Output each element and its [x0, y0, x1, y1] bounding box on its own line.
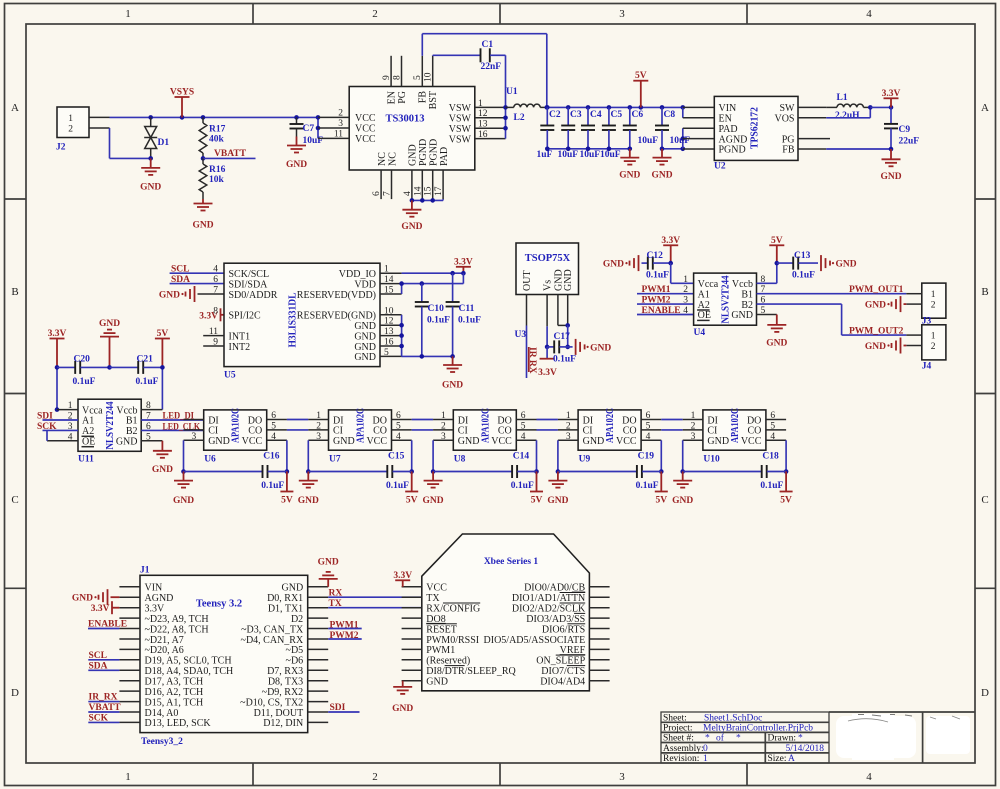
- svg-text:C15: C15: [388, 452, 405, 462]
- svg-text:C13: C13: [794, 251, 811, 261]
- power port VSYS: [181, 97, 183, 117]
- capacitor C5 10uF: [608, 107, 610, 125]
- svg-text:GND: GND: [583, 436, 605, 447]
- svg-text:GND: GND: [766, 338, 787, 348]
- wire U5 VDD_IO to 3.3V: [402, 272, 464, 274]
- ground symbol U9: [557, 472, 559, 481]
- wire U9 VCC drop: [660, 440, 662, 471]
- ground symbol at J4 pin2: [900, 338, 902, 354]
- svg-text:DO: DO: [497, 415, 511, 426]
- U8 left pins: [433, 419, 453, 421]
- svg-text:12: 12: [478, 109, 488, 119]
- svg-text:SD0/ADDR: SD0/ADDR: [229, 290, 278, 301]
- svg-text:1: 1: [125, 8, 131, 20]
- svg-text:C16: C16: [263, 452, 280, 462]
- svg-text:CI: CI: [208, 426, 218, 437]
- svg-text:GND: GND: [672, 496, 693, 506]
- svg-text:C18: C18: [762, 452, 779, 462]
- wire cap bank bottom rail: [547, 148, 630, 150]
- svg-text:C4: C4: [590, 110, 602, 120]
- svg-text:GND: GND: [354, 321, 376, 332]
- svg-text:VBATT: VBATT: [214, 149, 247, 159]
- capacitor C19 0.1uF: [558, 471, 637, 473]
- svg-text:NC: NC: [377, 152, 388, 166]
- svg-text:~D9, RX2: ~D9, RX2: [262, 687, 304, 698]
- svg-text:~D20, A6: ~D20, A6: [145, 645, 184, 656]
- U11 left pins: [57, 409, 78, 411]
- svg-text:GND: GND: [152, 465, 173, 475]
- ground symbol below R16: [202, 199, 204, 204]
- svg-text:VSW: VSW: [449, 134, 472, 145]
- svg-text:GND: GND: [282, 583, 304, 594]
- IC Xbee Series 1 body: [422, 534, 590, 691]
- svg-text:U8: U8: [454, 455, 466, 465]
- svg-text:0.1uF: 0.1uF: [261, 481, 284, 491]
- power port 3.3V below U3: [540, 358, 555, 360]
- svg-text:C11: C11: [459, 304, 475, 314]
- power port 3.3V output: [890, 98, 892, 107]
- svg-text:GND: GND: [836, 260, 857, 270]
- capacitor C1 22nF: [480, 48, 482, 62]
- IC U5 H3LIS331DL body: [224, 263, 380, 366]
- svg-text:CI: CI: [707, 426, 717, 437]
- svg-text:SCK/SCL: SCK/SCL: [229, 269, 270, 280]
- wire PAD AGND PGND tie: [682, 128, 684, 149]
- svg-text:APA102C: APA102C: [356, 408, 367, 443]
- svg-text:DI8/DTR/SLEEP_RQ: DI8/DTR/SLEEP_RQ: [426, 666, 516, 677]
- svg-text:D7, RX3: D7, RX3: [267, 666, 303, 677]
- U5 right pins: [380, 272, 402, 274]
- ground port above C20 C21: [109, 337, 111, 368]
- svg-text:Sheet:: Sheet:: [663, 713, 687, 723]
- svg-text:10uF: 10uF: [303, 136, 324, 146]
- U9 right pins: [641, 419, 661, 421]
- svg-text:6: 6: [146, 422, 151, 432]
- svg-text:VCC: VCC: [616, 436, 637, 447]
- svg-text:D13, LED, SCK: D13, LED, SCK: [145, 718, 212, 729]
- svg-text:GND: GND: [458, 436, 480, 447]
- ground symbol below C7: [296, 137, 298, 146]
- svg-text:1: 1: [931, 332, 936, 342]
- svg-text:DI: DI: [458, 415, 469, 426]
- svg-text:3: 3: [683, 296, 688, 306]
- svg-text:J3: J3: [922, 316, 932, 326]
- svg-text:APA102C: APA102C: [231, 408, 242, 443]
- svg-text:DIO6/RTS: DIO6/RTS: [542, 624, 585, 635]
- svg-text:C9: C9: [899, 125, 911, 135]
- power port 5V U6: [286, 472, 288, 492]
- wire U2 FB to C9 bottom: [826, 148, 891, 150]
- svg-text:2: 2: [931, 342, 936, 352]
- svg-text:5V: 5V: [635, 71, 647, 81]
- svg-text:3.3V: 3.3V: [538, 368, 557, 378]
- svg-text:LED_CLK: LED_CLK: [163, 422, 201, 432]
- Xbee left pin stubs: [402, 586, 422, 588]
- U8 right pins: [516, 419, 536, 421]
- capacitor C7 10uF: [296, 117, 298, 124]
- wire U5 GND pins tie: [401, 315, 403, 357]
- svg-text:15: 15: [424, 186, 434, 196]
- svg-text:~D6: ~D6: [286, 656, 304, 667]
- svg-text:Vcca: Vcca: [698, 279, 719, 290]
- wire VCC pins tie: [317, 117, 319, 138]
- U9 left pins: [558, 419, 578, 421]
- capacitor C11 0.1uF: [452, 273, 454, 302]
- svg-text:D1, TX1: D1, TX1: [268, 604, 303, 615]
- svg-text:4: 4: [683, 306, 688, 316]
- svg-text:CO: CO: [747, 426, 761, 437]
- svg-text:1: 1: [566, 411, 571, 421]
- svg-text:15: 15: [384, 286, 394, 296]
- svg-text:3: 3: [338, 119, 343, 129]
- svg-text:0.1uF: 0.1uF: [792, 271, 815, 281]
- wire 3.3V to U11 Vcca: [56, 367, 58, 409]
- IC U6 APA102C body: [204, 410, 267, 450]
- svg-text:5V: 5V: [655, 496, 667, 506]
- svg-text:0.1uF: 0.1uF: [136, 377, 159, 387]
- svg-text:OE: OE: [698, 310, 711, 321]
- svg-text:4: 4: [866, 8, 872, 20]
- svg-text:SCK: SCK: [37, 422, 57, 432]
- ground symbol U8: [432, 472, 434, 481]
- svg-text:2: 2: [316, 421, 321, 431]
- svg-text:1: 1: [68, 401, 73, 411]
- svg-text:GND: GND: [426, 677, 448, 688]
- wire U7 VCC drop: [411, 440, 413, 471]
- svg-text:GND: GND: [286, 160, 307, 170]
- svg-text:GND: GND: [318, 558, 339, 568]
- svg-text:0.1uF: 0.1uF: [511, 481, 534, 491]
- svg-text:Teensy3_2: Teensy3_2: [141, 737, 183, 747]
- inductor L1 2.2uH: [826, 106, 837, 108]
- svg-text:A2: A2: [82, 426, 94, 437]
- svg-text:DO: DO: [248, 415, 262, 426]
- svg-text:D11, DOUT: D11, DOUT: [254, 708, 304, 719]
- svg-text:SW: SW: [780, 103, 796, 114]
- svg-text:U7: U7: [329, 455, 341, 465]
- svg-text:DO: DO: [622, 415, 636, 426]
- svg-text:1: 1: [683, 275, 688, 285]
- svg-text:GND: GND: [116, 437, 138, 448]
- svg-text:1: 1: [68, 114, 73, 124]
- U7 right pins: [392, 419, 412, 421]
- svg-text:4: 4: [396, 432, 401, 442]
- svg-text:D12, DIN: D12, DIN: [263, 718, 303, 729]
- svg-text:6: 6: [372, 191, 382, 196]
- power port 5V at C21: [161, 339, 163, 368]
- svg-text:DO8: DO8: [426, 614, 445, 625]
- wire U5 VDD rail: [402, 283, 464, 285]
- svg-text:3: 3: [316, 432, 321, 442]
- ground symbol at U5 SD0/ADDR: [194, 286, 196, 302]
- svg-text:Teensy 3.2: Teensy 3.2: [196, 599, 242, 610]
- svg-text:Drawn:: Drawn:: [768, 734, 797, 744]
- wire VIN EN tie: [682, 107, 684, 117]
- svg-text:GND: GND: [354, 352, 376, 363]
- svg-text:DIO5/AD5/ASSOCIATE: DIO5/AD5/ASSOCIATE: [484, 635, 586, 646]
- wire U6 DO CO to next stage: [287, 419, 308, 421]
- svg-text:6: 6: [646, 411, 651, 421]
- power port 5V rail: [640, 81, 642, 108]
- ground symbol below C8: [661, 149, 663, 158]
- svg-text:D14, A0: D14, A0: [145, 708, 179, 719]
- svg-text:GND: GND: [423, 496, 444, 506]
- IC U1 TS30013 body: [349, 87, 475, 171]
- logo area white patches: [836, 716, 916, 758]
- svg-text:DIO2/AD2/SCLK: DIO2/AD2/SCLK: [512, 604, 586, 615]
- wire U5 ground rail: [402, 355, 453, 357]
- wire C8 ground tie: [662, 148, 683, 150]
- wire U8 DO CO to next stage: [537, 419, 558, 421]
- svg-text:INT1: INT1: [229, 331, 251, 342]
- svg-text:~D5: ~D5: [286, 645, 304, 656]
- U7 left pins: [308, 419, 328, 421]
- svg-text:D1: D1: [158, 138, 170, 148]
- svg-text:3: 3: [691, 432, 696, 442]
- svg-text:5: 5: [413, 75, 423, 80]
- svg-text:3.3V: 3.3V: [882, 89, 901, 99]
- svg-text:3: 3: [566, 432, 571, 442]
- svg-text:A2: A2: [698, 300, 710, 311]
- svg-text:14: 14: [413, 186, 423, 196]
- svg-text:RESERVED(GND): RESERVED(GND): [297, 311, 376, 322]
- wire U7 DO CO to next stage: [412, 419, 433, 421]
- capacitor C12 0.1uF: [642, 262, 648, 264]
- svg-text:GND: GND: [603, 260, 624, 270]
- svg-text:VDD: VDD: [354, 279, 376, 290]
- junction dot D1 bottom: [148, 156, 153, 161]
- svg-text:AGND: AGND: [719, 134, 748, 145]
- svg-text:Vs: Vs: [543, 280, 554, 291]
- svg-text:5: 5: [146, 432, 151, 442]
- svg-text:PWM1: PWM1: [426, 645, 455, 656]
- svg-text:APA102C: APA102C: [605, 408, 616, 443]
- svg-text:13: 13: [384, 327, 394, 337]
- J1 left pin stubs: [119, 586, 140, 588]
- svg-text:APA102C: APA102C: [480, 408, 491, 443]
- J1 right pin stubs: [308, 586, 329, 588]
- capacitor C8 10uF: [661, 107, 663, 125]
- svg-text:4: 4: [68, 432, 73, 442]
- svg-text:GND: GND: [72, 594, 93, 604]
- svg-text:VCC: VCC: [741, 436, 762, 447]
- svg-text:5V: 5V: [281, 496, 293, 506]
- resistor R17 40k: [202, 117, 204, 123]
- svg-text:3.3V: 3.3V: [48, 329, 67, 339]
- svg-text:4: 4: [770, 432, 775, 442]
- svg-text:4: 4: [213, 265, 218, 275]
- ground symbol at U11 GND: [161, 441, 163, 451]
- svg-text:FB: FB: [418, 91, 429, 104]
- svg-text:8: 8: [146, 401, 151, 411]
- svg-text:5: 5: [384, 348, 389, 358]
- svg-text:CI: CI: [458, 426, 468, 437]
- connector J2: [57, 107, 89, 138]
- svg-text:L2: L2: [514, 113, 525, 123]
- svg-text:C: C: [981, 494, 988, 506]
- ground symbol U10: [682, 472, 684, 481]
- svg-text:SDI/SDA: SDI/SDA: [229, 279, 269, 290]
- svg-text:2: 2: [338, 109, 343, 119]
- svg-text:PGND: PGND: [719, 145, 746, 156]
- power port 5V U8: [536, 472, 538, 492]
- svg-text:5V: 5V: [157, 329, 169, 339]
- power port 3.3V at C20: [56, 339, 58, 368]
- svg-text:GND: GND: [298, 496, 319, 506]
- svg-text:10uF: 10uF: [638, 136, 659, 146]
- wire J2 pin2 to D1 anode: [109, 128, 111, 158]
- wire U8 VCC drop: [536, 440, 538, 471]
- svg-text:VCC: VCC: [491, 436, 512, 447]
- svg-text:PAD: PAD: [439, 147, 450, 166]
- svg-text:FB: FB: [782, 145, 795, 156]
- svg-text:RX/CONFIG: RX/CONFIG: [426, 604, 480, 615]
- svg-text:0.1uF: 0.1uF: [458, 316, 481, 326]
- U10 left pins: [683, 419, 703, 421]
- svg-text:PG: PG: [782, 134, 795, 145]
- svg-text:VIN: VIN: [145, 583, 163, 594]
- svg-text:DI: DI: [583, 415, 594, 426]
- svg-text:CO: CO: [498, 426, 512, 437]
- svg-text:J4: J4: [922, 361, 932, 371]
- svg-text:EN: EN: [387, 91, 398, 104]
- svg-text:PWM_OUT1: PWM_OUT1: [849, 285, 904, 295]
- ground symbol cap bank: [629, 149, 631, 158]
- svg-text:14: 14: [384, 275, 394, 285]
- svg-text:0.1uF: 0.1uF: [553, 355, 576, 365]
- svg-text:3.3V: 3.3V: [393, 571, 412, 581]
- wire VSYS power rail to U2: [547, 106, 683, 108]
- svg-text:4: 4: [646, 432, 651, 442]
- svg-text:A: A: [981, 102, 989, 114]
- svg-text:3: 3: [191, 432, 196, 442]
- svg-text:VSYS: VSYS: [170, 88, 194, 98]
- wire U10 GND drop: [682, 440, 684, 471]
- wire U6 GND drop: [183, 440, 185, 471]
- diode D1 (TVS): [150, 117, 152, 126]
- svg-text:2: 2: [931, 301, 936, 311]
- svg-text:VOS: VOS: [774, 114, 794, 125]
- wire 3.3V to U4 Vcca: [670, 263, 672, 283]
- svg-text:~D21, A7: ~D21, A7: [145, 635, 184, 646]
- svg-text:GND: GND: [880, 172, 901, 182]
- svg-text:Sheet1.SchDoc: Sheet1.SchDoc: [704, 713, 762, 723]
- svg-text:3: 3: [619, 771, 625, 783]
- power port 3.3V at U5 SPI/I2C: [220, 308, 222, 321]
- svg-text:R16: R16: [209, 165, 226, 175]
- svg-text:SPI/I2C: SPI/I2C: [229, 311, 262, 322]
- svg-text:22uF: 22uF: [899, 137, 920, 147]
- svg-text:2: 2: [68, 124, 73, 134]
- svg-text:6: 6: [521, 411, 526, 421]
- wire 5V to U11 Vccb: [161, 367, 163, 409]
- svg-text:12: 12: [384, 317, 394, 327]
- svg-text:C6: C6: [632, 110, 644, 120]
- svg-text:16: 16: [478, 130, 488, 140]
- svg-text:DIO1/AD1/ATTN: DIO1/AD1/ATTN: [512, 593, 585, 604]
- svg-text:B1: B1: [741, 289, 753, 300]
- svg-text:16: 16: [384, 338, 394, 348]
- svg-text:2: 2: [441, 421, 446, 431]
- U11 OE tie wire: [46, 430, 48, 440]
- svg-text:U6: U6: [204, 455, 216, 465]
- ground port above J1 GND pin: [327, 579, 329, 587]
- svg-text:~D22, A8, TCH: ~D22, A8, TCH: [145, 624, 209, 635]
- svg-text:~D4, CAN_RX: ~D4, CAN_RX: [241, 635, 304, 646]
- svg-text:GND: GND: [99, 319, 120, 329]
- svg-text:0.1uF: 0.1uF: [760, 481, 783, 491]
- svg-text:PAD: PAD: [719, 124, 738, 135]
- svg-text:5V: 5V: [406, 496, 418, 506]
- svg-text:DO: DO: [373, 415, 387, 426]
- svg-text:C3: C3: [570, 110, 582, 120]
- net label VBATT and wire: [201, 156, 206, 161]
- svg-text:10k: 10k: [209, 175, 225, 185]
- svg-text:C14: C14: [513, 452, 530, 462]
- svg-text:of: of: [716, 733, 725, 744]
- svg-text:GND: GND: [865, 342, 886, 352]
- svg-text:D: D: [11, 687, 19, 699]
- svg-text:3: 3: [441, 432, 446, 442]
- svg-text:RESERVED(VDD): RESERVED(VDD): [297, 290, 376, 301]
- svg-text:7: 7: [146, 412, 151, 422]
- wire J2 pin1 to U1 VCC rail: [110, 116, 319, 118]
- svg-text:VCC: VCC: [355, 134, 376, 145]
- svg-text:C21: C21: [137, 355, 154, 365]
- svg-text:*: *: [736, 734, 741, 744]
- svg-text:4: 4: [866, 771, 872, 783]
- svg-text:5: 5: [396, 421, 401, 431]
- capacitor C6 10uF: [629, 107, 631, 125]
- svg-text:CI: CI: [583, 426, 593, 437]
- U6 right pins: [267, 419, 287, 421]
- IC U3 TSOP75X body: [516, 243, 579, 295]
- ground symbol right of C13: [820, 255, 822, 271]
- svg-text:D8, TX3: D8, TX3: [268, 677, 303, 688]
- svg-text:B2: B2: [126, 426, 138, 437]
- svg-text:1: 1: [931, 290, 936, 300]
- ground symbol below U1: [411, 200, 413, 209]
- svg-text:CO: CO: [373, 426, 387, 437]
- svg-text:GND: GND: [563, 269, 574, 291]
- svg-text:U9: U9: [579, 455, 591, 465]
- svg-text:0.1uF: 0.1uF: [73, 377, 96, 387]
- svg-text:7: 7: [213, 286, 218, 296]
- svg-text:5V: 5V: [780, 496, 792, 506]
- connector J3: [922, 283, 946, 318]
- svg-text:3.3V: 3.3V: [91, 604, 110, 614]
- svg-text:C17: C17: [554, 332, 571, 342]
- svg-text:Revision:: Revision:: [663, 754, 699, 764]
- svg-text:PWM0/RSSI: PWM0/RSSI: [426, 635, 479, 646]
- svg-text:8: 8: [213, 306, 218, 316]
- svg-text:2: 2: [691, 421, 696, 431]
- wire U1 ground pins rail: [412, 199, 443, 201]
- Xbee right pin stubs: [589, 586, 609, 588]
- IC U10 APA102C body: [703, 410, 766, 450]
- svg-text:C19: C19: [638, 452, 655, 462]
- U1 left pins VCC 2,3,11: [318, 116, 349, 118]
- svg-text:1: 1: [703, 754, 708, 764]
- svg-text:VDD_IO: VDD_IO: [339, 269, 376, 280]
- svg-text:11: 11: [334, 129, 343, 139]
- svg-text:22nF: 22nF: [481, 62, 502, 72]
- svg-text:2: 2: [566, 421, 571, 431]
- zone tick marks: [252, 4, 254, 25]
- svg-text:A: A: [788, 754, 795, 764]
- U6 left pins: [184, 419, 204, 421]
- svg-text:0.1uF: 0.1uF: [646, 271, 669, 281]
